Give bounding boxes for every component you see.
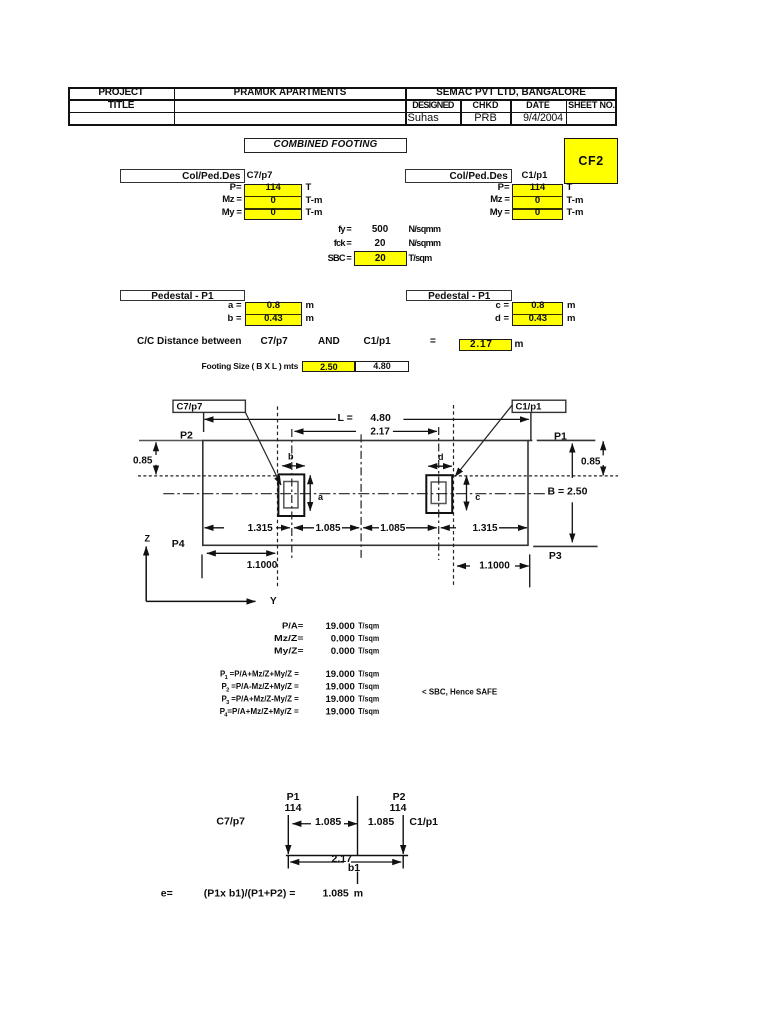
svg-text:m: m bbox=[354, 887, 363, 899]
dimension d bbox=[428, 452, 452, 466]
P3 edge line and label bbox=[533, 546, 597, 561]
center axis line bbox=[357, 796, 359, 884]
extension tick bottom-left bbox=[201, 554, 203, 578]
dimension 0.85 right bbox=[581, 441, 603, 475]
svg-text:C7/p7: C7/p7 bbox=[216, 816, 245, 828]
dimension 1.1000 left bbox=[207, 553, 278, 571]
svg-text:Y: Y bbox=[270, 596, 277, 607]
svg-text:P =P/A+Mz/Z+My/Z =: P =P/A+Mz/Z+My/Z = bbox=[220, 669, 299, 679]
svg-text:0.000: 0.000 bbox=[331, 634, 355, 645]
vertical dashed reference left bbox=[277, 406, 279, 587]
svg-text:19.000: 19.000 bbox=[325, 682, 354, 693]
svg-text:0.85: 0.85 bbox=[133, 456, 153, 467]
svg-text:2: 2 bbox=[226, 688, 229, 694]
svg-text:2.17: 2.17 bbox=[370, 426, 390, 437]
svg-text:1.1000: 1.1000 bbox=[247, 560, 278, 571]
svg-text:0.000: 0.000 bbox=[331, 646, 355, 657]
P2 load arrow bbox=[402, 815, 404, 869]
svg-text:T/sqm: T/sqm bbox=[358, 620, 379, 630]
pedestal left bbox=[278, 474, 304, 516]
svg-text:B = 2.50: B = 2.50 bbox=[548, 485, 588, 497]
dimension 2.17 top bbox=[295, 426, 437, 437]
svg-text:19.000: 19.000 bbox=[325, 669, 354, 680]
label box C1/p1 bbox=[512, 400, 566, 412]
svg-text:P/A=: P/A= bbox=[282, 620, 303, 630]
svg-text:114: 114 bbox=[285, 802, 302, 814]
svg-text:P3: P3 bbox=[549, 550, 562, 562]
svg-text:19.000: 19.000 bbox=[325, 694, 354, 705]
leader from C1/p1 to pedestal bbox=[455, 405, 512, 477]
svg-text:1.085: 1.085 bbox=[380, 523, 405, 534]
svg-text:T/sqm: T/sqm bbox=[358, 694, 379, 704]
extension line below C1/p1 bbox=[530, 412, 532, 441]
Y axis bbox=[146, 596, 277, 607]
base line bbox=[286, 855, 408, 857]
svg-text:1.315: 1.315 bbox=[472, 523, 497, 534]
svg-text:Mz/Z=: Mz/Z= bbox=[274, 633, 304, 643]
svg-text:1.085: 1.085 bbox=[315, 523, 340, 534]
svg-text:L =: L = bbox=[338, 412, 353, 424]
P1 load arrow bbox=[287, 815, 289, 869]
svg-text:P4: P4 bbox=[172, 538, 185, 550]
pressure results block bbox=[274, 620, 379, 657]
extension line below C7/p7 bbox=[203, 412, 205, 432]
svg-text:T/sqm: T/sqm bbox=[358, 669, 379, 679]
svg-text:C1/p1: C1/p1 bbox=[516, 402, 543, 413]
P1 edge line and label bbox=[537, 431, 596, 443]
svg-text:b1: b1 bbox=[348, 862, 360, 874]
vertical dashed reference right bbox=[453, 405, 455, 587]
label box C7/p7 bbox=[173, 400, 245, 412]
pedestal right bbox=[426, 475, 452, 513]
dimension row 1.085 seg3 bbox=[363, 523, 437, 534]
svg-text:1.085: 1.085 bbox=[315, 816, 341, 828]
P2 load label bbox=[390, 791, 407, 814]
svg-text:Z: Z bbox=[145, 533, 151, 543]
P2 edge line and label bbox=[139, 430, 203, 442]
extension tick bottom-right bbox=[529, 554, 531, 587]
svg-text:1.085: 1.085 bbox=[323, 887, 349, 899]
svg-text:T/sqm: T/sqm bbox=[358, 633, 379, 643]
svg-text:< SBC, Hence SAFE: < SBC, Hence SAFE bbox=[422, 687, 497, 697]
svg-text:4.80: 4.80 bbox=[370, 412, 391, 424]
svg-text:e=: e= bbox=[161, 887, 173, 899]
Z axis bbox=[145, 533, 151, 601]
svg-text:C1/p1: C1/p1 bbox=[409, 816, 438, 828]
corner pressure formulas bbox=[220, 669, 380, 719]
dimension c bbox=[467, 476, 481, 511]
svg-text:T/sqm: T/sqm bbox=[358, 706, 379, 716]
svg-text:19.000: 19.000 bbox=[325, 707, 354, 718]
dimension a bbox=[310, 475, 324, 511]
svg-text:0.85: 0.85 bbox=[581, 457, 601, 468]
svg-text:P =P/A+Mz/Z-My/Z =: P =P/A+Mz/Z-My/Z = bbox=[222, 694, 299, 704]
svg-text:T/sqm: T/sqm bbox=[358, 645, 379, 655]
dashed offset line 0.85 left bbox=[138, 475, 278, 477]
svg-text:1.1000: 1.1000 bbox=[479, 560, 510, 571]
dimension row 1.315 seg4 bbox=[441, 523, 527, 534]
1.085 left with arrows bbox=[292, 816, 357, 828]
dimension L = 4.80 bbox=[205, 412, 529, 424]
leader from C7/p7 to pedestal bbox=[245, 412, 281, 485]
P1 load label bbox=[285, 791, 302, 814]
svg-text:P =P/A-Mz/Z+My/Z =: P =P/A-Mz/Z+My/Z = bbox=[222, 681, 299, 691]
centerline horizontal bbox=[163, 493, 545, 495]
dimension b bbox=[282, 452, 305, 466]
svg-text:T/sqm: T/sqm bbox=[358, 681, 379, 691]
svg-text:P =P/A+Mz/Z+My/Z =: P =P/A+Mz/Z+My/Z = bbox=[220, 706, 299, 716]
centerline pedestal right bbox=[438, 427, 440, 560]
eccentricity formula bbox=[161, 887, 363, 899]
footing outline bbox=[203, 441, 533, 546]
dimension 2.17 bottom bbox=[290, 853, 401, 865]
svg-text:d: d bbox=[438, 452, 444, 462]
svg-text:1.315: 1.315 bbox=[248, 523, 273, 534]
svg-text:b: b bbox=[288, 452, 294, 462]
dimension row 1.315 seg1 bbox=[205, 523, 290, 534]
svg-text:(P1x b1)/(P1+P2) =: (P1x b1)/(P1+P2) = bbox=[204, 887, 296, 899]
svg-text:My/Z=: My/Z= bbox=[274, 645, 304, 655]
centerline pedestal left bbox=[291, 429, 293, 560]
dimension B = 2.50 bbox=[548, 444, 588, 543]
svg-text:C7/p7: C7/p7 bbox=[177, 402, 203, 413]
dimension row 1.085 seg2 bbox=[294, 523, 359, 534]
centerline footing middle bbox=[360, 434, 362, 559]
svg-text:1.085: 1.085 bbox=[368, 816, 394, 828]
svg-text:114: 114 bbox=[390, 802, 407, 814]
dimension 0.85 left bbox=[133, 442, 156, 474]
svg-text:P1: P1 bbox=[554, 431, 567, 443]
dashed offset line 0.85 right bbox=[454, 475, 619, 477]
dimension 1.1000 right bbox=[457, 560, 529, 571]
svg-text:19.000: 19.000 bbox=[325, 621, 354, 632]
svg-text:P2: P2 bbox=[180, 430, 193, 442]
svg-text:c: c bbox=[475, 492, 480, 502]
